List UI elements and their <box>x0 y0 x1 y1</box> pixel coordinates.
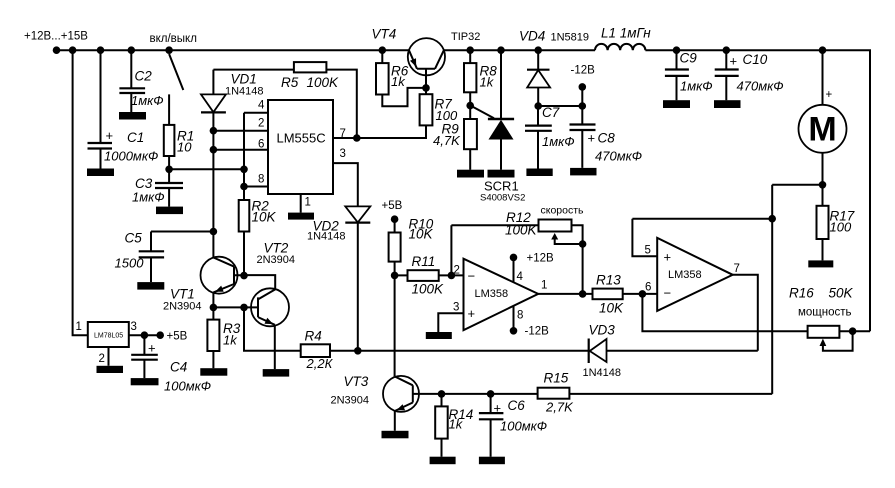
svg-text:SCR1: SCR1 <box>484 179 519 194</box>
svg-text:4: 4 <box>517 271 524 283</box>
svg-text:R11: R11 <box>412 254 436 269</box>
svg-text:+: + <box>494 401 502 416</box>
svg-text:100K: 100K <box>412 282 445 297</box>
svg-text:2: 2 <box>258 118 264 130</box>
svg-text:R13: R13 <box>596 273 621 288</box>
svg-text:1000мкФ: 1000мкФ <box>104 149 158 164</box>
svg-text:2N3904: 2N3904 <box>331 395 370 407</box>
svg-text:мощность: мощность <box>798 307 852 319</box>
svg-text:1мкФ: 1мкФ <box>542 134 575 149</box>
svg-text:2,2К: 2,2К <box>306 356 334 371</box>
svg-text:R4: R4 <box>305 329 322 344</box>
svg-text:50K: 50K <box>829 286 854 301</box>
svg-text:+: + <box>148 341 156 356</box>
svg-text:100мкФ: 100мкФ <box>164 379 211 394</box>
svg-text:4,7K: 4,7K <box>433 133 461 148</box>
svg-text:6: 6 <box>258 139 264 151</box>
svg-text:L1 1мГн: L1 1мГн <box>601 26 651 41</box>
svg-text:1k: 1k <box>391 74 406 89</box>
svg-text:+12В...+15В: +12В...+15В <box>24 31 88 43</box>
svg-text:VT4: VT4 <box>372 27 397 42</box>
svg-text:R16: R16 <box>789 286 814 301</box>
svg-text:10K: 10K <box>409 227 434 242</box>
svg-text:LM78L05: LM78L05 <box>94 333 123 340</box>
svg-text:1мкФ: 1мкФ <box>131 93 164 108</box>
svg-text:1N4148: 1N4148 <box>583 367 622 379</box>
svg-text:1: 1 <box>76 321 82 333</box>
svg-text:5: 5 <box>645 245 651 257</box>
svg-text:LM555C: LM555C <box>277 131 326 146</box>
svg-text:4: 4 <box>258 100 265 112</box>
svg-text:3: 3 <box>340 148 346 160</box>
svg-text:1мкФ: 1мкФ <box>132 190 165 205</box>
svg-text:1мкФ: 1мкФ <box>680 79 713 94</box>
svg-text:10K: 10K <box>252 210 277 225</box>
svg-text:C5: C5 <box>125 231 143 246</box>
svg-text:C2: C2 <box>135 69 153 84</box>
svg-text:вкл/выкл: вкл/выкл <box>150 33 197 45</box>
svg-text:100мкФ: 100мкФ <box>500 419 547 434</box>
svg-text:VD1: VD1 <box>231 72 257 87</box>
svg-text:7: 7 <box>734 263 740 275</box>
svg-text:470мкФ: 470мкФ <box>737 79 784 94</box>
svg-text:скорость: скорость <box>541 205 585 217</box>
svg-text:VD4: VD4 <box>519 29 545 44</box>
svg-text:-12В: -12В <box>571 64 596 76</box>
svg-text:1N5819: 1N5819 <box>551 32 590 44</box>
svg-text:+: + <box>730 54 738 69</box>
svg-text:C7: C7 <box>542 105 560 120</box>
svg-text:+: + <box>106 128 114 143</box>
svg-text:2N3904: 2N3904 <box>163 301 202 313</box>
svg-text:VT1: VT1 <box>170 287 195 302</box>
svg-text:VT3: VT3 <box>344 374 369 389</box>
svg-text:2: 2 <box>99 353 105 365</box>
svg-text:C4: C4 <box>170 360 187 375</box>
svg-text:3: 3 <box>453 302 459 314</box>
svg-text:8: 8 <box>517 310 523 322</box>
svg-text:10K: 10K <box>599 301 624 316</box>
svg-text:−: − <box>468 269 476 284</box>
svg-text:3: 3 <box>131 321 137 333</box>
svg-text:1k: 1k <box>223 333 238 348</box>
svg-text:+5В: +5В <box>167 331 188 343</box>
svg-text:7: 7 <box>340 128 346 140</box>
svg-text:2,7K: 2,7K <box>545 400 574 415</box>
svg-text:+: + <box>588 131 596 146</box>
svg-text:+5В: +5В <box>382 200 403 212</box>
svg-text:1N4148: 1N4148 <box>225 86 264 98</box>
svg-text:VD3: VD3 <box>589 323 616 338</box>
svg-text:+12В: +12В <box>527 253 555 265</box>
svg-text:1k: 1k <box>480 75 495 90</box>
svg-text:R5: R5 <box>281 75 299 90</box>
svg-text:C1: C1 <box>127 130 144 145</box>
svg-text:2N3904: 2N3904 <box>257 254 296 266</box>
svg-text:6: 6 <box>645 282 651 294</box>
svg-text:LM358: LM358 <box>668 269 702 281</box>
svg-text:1N4148: 1N4148 <box>307 231 346 243</box>
svg-text:470мкФ: 470мкФ <box>595 149 642 164</box>
svg-text:100: 100 <box>830 220 852 235</box>
svg-text:2: 2 <box>454 265 460 277</box>
svg-text:C10: C10 <box>743 52 768 67</box>
svg-text:+: + <box>826 89 833 101</box>
svg-text:-12В: -12В <box>525 326 550 338</box>
svg-text:TIP32: TIP32 <box>451 31 480 43</box>
svg-text:−: − <box>664 286 672 301</box>
svg-text:S4008VS2: S4008VS2 <box>480 193 525 204</box>
svg-text:+: + <box>468 306 476 321</box>
svg-text:R15: R15 <box>544 371 569 386</box>
svg-text:1500: 1500 <box>115 256 145 271</box>
svg-text:10: 10 <box>177 140 192 155</box>
svg-text:C9: C9 <box>680 51 698 66</box>
svg-text:100K: 100K <box>307 75 340 90</box>
svg-text:C8: C8 <box>598 131 616 146</box>
svg-text:1k: 1k <box>449 417 464 432</box>
svg-text:8: 8 <box>258 174 264 186</box>
svg-text:LM358: LM358 <box>475 288 509 300</box>
svg-text:1: 1 <box>541 280 547 292</box>
svg-text:M: M <box>808 111 836 149</box>
svg-text:100K: 100K <box>505 223 538 238</box>
svg-text:C6: C6 <box>508 398 526 413</box>
svg-text:1: 1 <box>305 197 311 209</box>
svg-text:+: + <box>664 250 672 265</box>
